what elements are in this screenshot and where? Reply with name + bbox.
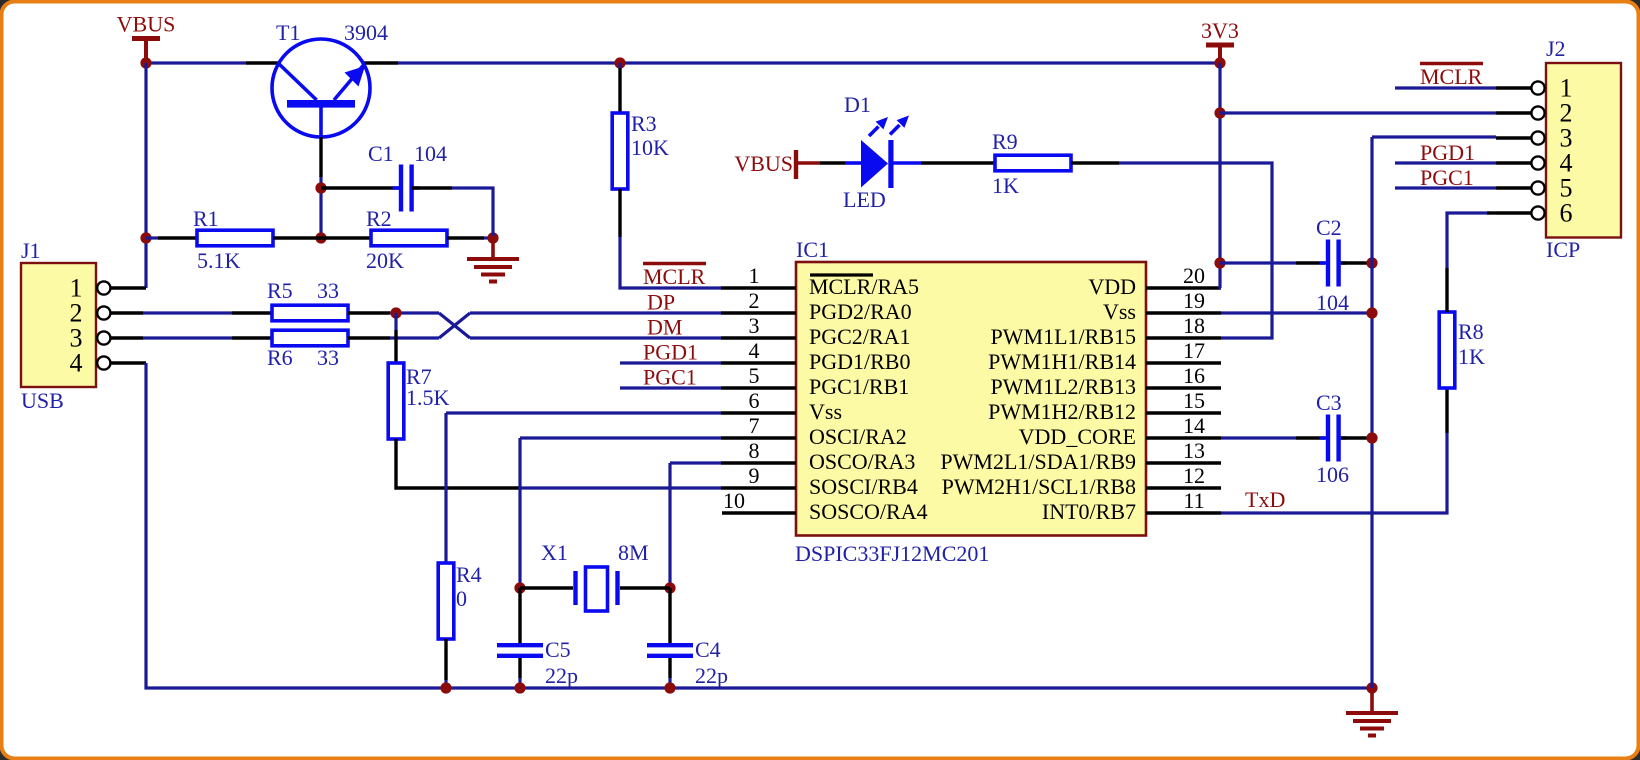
pin stub IC1.9	[721, 486, 796, 489]
svg-text:33: 33	[317, 278, 339, 303]
pin circle J2.3	[1531, 131, 1544, 144]
junction R7 top node	[390, 307, 401, 318]
capacitor C3	[1320, 415, 1347, 462]
svg-text:3: 3	[749, 313, 760, 338]
svg-text:3V3: 3V3	[1201, 18, 1239, 43]
wire IC1 pin8 OSCO net	[670, 461, 721, 464]
pin stub IC1.18	[1146, 336, 1221, 339]
svg-text:3904: 3904	[344, 20, 388, 45]
svg-text:R4: R4	[456, 562, 482, 587]
svg-text:C5: C5	[545, 637, 571, 662]
svg-text:PGC1: PGC1	[643, 365, 697, 390]
svg-text:16: 16	[1183, 363, 1205, 388]
pin R2 right lead	[447, 236, 484, 239]
svg-text:17: 17	[1183, 338, 1205, 363]
overline MCLR pin name	[810, 273, 873, 276]
resistor R1	[197, 230, 273, 246]
svg-text:1K: 1K	[992, 173, 1019, 198]
wire IC1 pin14 to C3	[1221, 436, 1296, 439]
svg-text:DM: DM	[647, 315, 682, 340]
net label MCLR	[643, 264, 706, 290]
svg-text:VDD: VDD	[1088, 274, 1136, 299]
resistor R9	[995, 155, 1071, 171]
pin stub IC1.1	[721, 286, 796, 289]
svg-text:8: 8	[749, 438, 760, 463]
wire R8 to J2 pin6	[1447, 213, 1490, 268]
crystal X1	[576, 567, 618, 611]
pin C3 left lead	[1296, 436, 1325, 439]
wire VBUS rail to T1 collector	[146, 61, 246, 64]
svg-text:12: 12	[1183, 463, 1205, 488]
svg-text:5: 5	[749, 363, 760, 388]
resistor R5	[272, 305, 348, 321]
wire R5 to crossover	[390, 311, 439, 314]
pin stub IC1.4	[721, 361, 796, 364]
pin R7 top lead	[394, 330, 397, 363]
svg-text:PGD1/RB0: PGD1/RB0	[809, 349, 910, 374]
pin D1 anode lead	[820, 161, 845, 164]
svg-text:7: 7	[749, 413, 760, 438]
svg-text:104: 104	[1316, 290, 1349, 315]
svg-text:15: 15	[1183, 388, 1205, 413]
pin circle J2.4	[1531, 156, 1544, 169]
svg-text:J2: J2	[1546, 36, 1566, 61]
IC IC1 box	[796, 262, 1146, 536]
pin C2 right lead	[1341, 261, 1372, 264]
svg-text:OSCO/RA3: OSCO/RA3	[809, 449, 915, 474]
junction C2 branch	[1214, 257, 1225, 268]
wire R6 to crossover	[390, 336, 439, 339]
wire C1 right to ground node	[452, 188, 493, 236]
svg-text:PWM2H1/SCL1/RB8: PWM2H1/SCL1/RB8	[942, 474, 1136, 499]
resistor R6	[272, 330, 348, 346]
wire PGC1 net to J2.5	[1395, 186, 1496, 189]
pin J2.2 lead	[1496, 111, 1531, 114]
ground at R2/C1	[467, 238, 519, 282]
pin stub IC1.14	[1146, 436, 1221, 439]
svg-text:C1: C1	[368, 141, 394, 166]
svg-text:14: 14	[1183, 413, 1205, 438]
wire R2 to ground node	[484, 236, 493, 239]
pin J2.1 lead	[1496, 86, 1531, 89]
svg-text:VBUS: VBUS	[734, 151, 793, 176]
resistor R2	[371, 230, 447, 246]
pin R6 left lead	[232, 336, 272, 339]
wire R3 to IC1 pin1 MCLR	[620, 237, 721, 288]
junction Vss ground	[1366, 307, 1377, 318]
svg-text:33: 33	[317, 345, 339, 370]
pin J1.1 lead	[110, 286, 146, 289]
pin R1 left lead	[158, 236, 197, 239]
junction R1 left node	[140, 232, 151, 243]
pin J1.4 lead	[110, 361, 146, 364]
pin C4 top lead	[668, 588, 671, 643]
wire R4 to ground rail	[444, 680, 447, 688]
pin stub IC1.3	[721, 336, 796, 339]
svg-text:PGC1: PGC1	[1420, 165, 1474, 190]
svg-text:13: 13	[1183, 438, 1205, 463]
wire crossover to IC1 pin3	[470, 336, 721, 339]
pin stub IC1.12	[1146, 486, 1221, 489]
pin circle J2.6	[1531, 206, 1544, 219]
svg-text:18: 18	[1183, 313, 1205, 338]
svg-text:VDD_CORE: VDD_CORE	[1019, 424, 1136, 449]
pin X1 right lead	[620, 586, 670, 589]
pin J2.6 lead	[1496, 211, 1531, 214]
svg-text:T1: T1	[276, 20, 300, 45]
pin R1 right lead	[273, 236, 321, 239]
ground main	[1346, 688, 1398, 736]
svg-text:MCLR: MCLR	[1420, 64, 1483, 89]
pin circle J1.2	[97, 306, 110, 319]
wire J1.3 to R6	[143, 336, 232, 339]
svg-text:SOSCO/RA4: SOSCO/RA4	[809, 499, 928, 524]
pin circle J1.1	[97, 281, 110, 294]
svg-text:R5: R5	[267, 278, 293, 303]
svg-text:PGC2/RA1: PGC2/RA1	[809, 324, 910, 349]
svg-text:11: 11	[1183, 488, 1204, 513]
wire 3V3 rail from T1 emitter	[398, 61, 1220, 64]
wire Vss down to R4	[444, 413, 447, 563]
wire PGD1 net to IC1 pin4	[620, 361, 721, 364]
wire node to R1	[146, 236, 158, 239]
pin stub IC1.5	[721, 386, 796, 389]
wire ground net vertical	[1370, 137, 1373, 688]
pin R2 left lead	[321, 236, 371, 239]
wire PGD1 net to J2.4	[1395, 161, 1496, 164]
svg-text:6: 6	[1560, 199, 1573, 228]
junction C3 ground	[1366, 432, 1377, 443]
wire VBUS vertical	[144, 63, 147, 288]
pin D1 cathode lead to R9	[921, 161, 995, 164]
wire R7 to IC1 pin9	[519, 486, 721, 489]
junction C2 ground	[1366, 257, 1377, 268]
junction 3V3 stem	[1214, 57, 1225, 68]
svg-text:8M: 8M	[618, 540, 649, 565]
pin C5 bottom lead	[518, 658, 521, 678]
wire node to R7	[394, 313, 397, 330]
svg-text:R6: R6	[267, 345, 293, 370]
pin J1.3 lead	[110, 336, 143, 339]
svg-text:104: 104	[414, 141, 447, 166]
pin J2.5 lead	[1496, 186, 1531, 189]
svg-text:D1: D1	[844, 92, 871, 117]
wire OSCI down to X1	[518, 438, 521, 588]
svg-text:PGC1/RB1: PGC1/RB1	[809, 374, 909, 399]
pin C2 left lead	[1296, 261, 1325, 264]
svg-text:MCLR/RA5: MCLR/RA5	[809, 274, 919, 299]
svg-text:Vss: Vss	[1103, 299, 1136, 324]
svg-text:22p: 22p	[695, 663, 728, 688]
pin stub IC1.15	[1146, 411, 1221, 414]
junction R3 top	[614, 57, 625, 68]
wire crossover DM	[439, 313, 470, 338]
svg-text:1.5K: 1.5K	[406, 385, 450, 410]
wire C5 to ground rail	[518, 678, 521, 688]
wire IC1 pin19 Vss to ground net	[1221, 311, 1372, 314]
svg-text:INT0/RB7: INT0/RB7	[1042, 499, 1136, 524]
junction X1 right node	[664, 582, 675, 593]
svg-text:4: 4	[749, 338, 760, 363]
wire PGC1 net to IC1 pin5	[620, 386, 721, 389]
svg-text:ICP: ICP	[1546, 237, 1580, 262]
pin stub IC1.8	[721, 461, 796, 464]
pin circle J2.5	[1531, 181, 1544, 194]
svg-text:R9: R9	[992, 129, 1018, 154]
wire crossover to IC1 pin2	[470, 311, 721, 314]
svg-text:22p: 22p	[545, 663, 578, 688]
wire 3V3 to J2.2	[1220, 111, 1496, 114]
wire 3V3 to C2	[1220, 261, 1296, 264]
terminal VBUS (LED)	[734, 150, 820, 179]
wire T1 base to R1/R2 node	[319, 177, 322, 238]
junction J2 pin2 branch	[1214, 107, 1225, 118]
svg-text:6: 6	[749, 388, 760, 413]
svg-text:IC1: IC1	[796, 237, 829, 262]
power flag 3V3	[1201, 18, 1239, 63]
svg-text:USB: USB	[21, 388, 64, 413]
pin C1 right lead	[412, 186, 452, 189]
wire ground rail	[146, 363, 1372, 688]
pin R8 bottom lead	[1445, 389, 1448, 433]
wire OSCO down to X1	[668, 463, 671, 588]
junction C1 left	[315, 182, 326, 193]
svg-text:PWM1H2/RB12: PWM1H2/RB12	[988, 399, 1136, 424]
resistor R4	[438, 563, 454, 639]
pin circle J2.2	[1531, 106, 1544, 119]
svg-text:C3: C3	[1316, 390, 1342, 415]
pin stub IC1.20	[1146, 286, 1221, 289]
svg-text:10K: 10K	[631, 135, 669, 160]
svg-text:PWM2L1/SDA1/RB9: PWM2L1/SDA1/RB9	[940, 449, 1136, 474]
transistor T1	[272, 39, 370, 137]
pin R9 right lead	[1071, 161, 1119, 164]
wire IC1 pin7 OSCI net	[520, 436, 721, 439]
pin stub IC1.13	[1146, 461, 1221, 464]
svg-text:DP: DP	[647, 290, 675, 315]
junction R4 ground	[440, 682, 451, 693]
capacitor C5	[497, 645, 543, 656]
resistor R3	[612, 113, 628, 189]
pin J1.2 lead	[110, 311, 143, 314]
wire crossover DP	[439, 313, 470, 338]
pin R3 bottom lead	[618, 189, 621, 237]
pin T1 base lead	[319, 137, 322, 177]
connector J1 box	[21, 263, 96, 387]
svg-text:PWM1L1/RB15: PWM1L1/RB15	[991, 324, 1136, 349]
svg-text:5.1K: 5.1K	[197, 248, 241, 273]
pin stub IC1.6	[721, 411, 796, 414]
svg-text:SOSCI/RB4: SOSCI/RB4	[809, 474, 918, 499]
pin stub IC1.2	[721, 311, 796, 314]
svg-text:VBUS: VBUS	[117, 12, 176, 37]
svg-text:X1: X1	[541, 540, 568, 565]
svg-text:2: 2	[749, 288, 760, 313]
pin R3 top lead	[618, 68, 621, 113]
pin C4 bottom lead	[668, 658, 671, 678]
svg-text:PGD1: PGD1	[1420, 140, 1475, 165]
wire J1.2 to R5	[143, 311, 232, 314]
svg-text:J1: J1	[21, 238, 41, 263]
svg-text:4: 4	[70, 349, 83, 378]
svg-text:106: 106	[1316, 462, 1349, 487]
svg-text:R2: R2	[366, 206, 392, 231]
capacitor C1	[393, 165, 420, 212]
svg-text:10: 10	[723, 488, 745, 513]
pin R7 bottom lead to SOSCI net	[396, 439, 519, 488]
svg-text:0: 0	[456, 586, 467, 611]
svg-text:PGD1: PGD1	[643, 340, 698, 365]
resistor R7	[388, 363, 404, 439]
pin C1 left lead	[321, 186, 400, 189]
svg-text:19: 19	[1183, 288, 1205, 313]
resistor R8	[1439, 312, 1455, 388]
connector J2 box	[1546, 63, 1621, 238]
wire MCLR net to J2.1	[1395, 86, 1496, 89]
pin T1 emitter lead	[364, 61, 398, 64]
wire ground to J2.3	[1372, 135, 1496, 138]
pin circle J2.1	[1531, 81, 1544, 94]
svg-text:LED: LED	[843, 187, 886, 212]
pin T1 collector lead	[246, 61, 278, 64]
wire 3V3 rail to IC1 pin20 VDD	[1220, 63, 1221, 288]
svg-text:Vss: Vss	[809, 399, 842, 424]
junction VBUS rail	[140, 57, 151, 68]
junction C5 ground	[514, 682, 525, 693]
svg-text:PGD2/RA0: PGD2/RA0	[809, 299, 912, 324]
wire C4 to ground rail	[668, 678, 671, 688]
pin stub IC1.7	[721, 436, 796, 439]
pin R8 top lead	[1445, 268, 1448, 312]
svg-text:TxD: TxD	[1245, 487, 1285, 512]
junction ground node	[487, 232, 498, 243]
pin J2.4 lead	[1496, 161, 1531, 164]
svg-text:C4: C4	[695, 637, 721, 662]
junction X1 left node	[514, 582, 525, 593]
pin C5 top lead	[518, 588, 521, 643]
capacitor C2	[1320, 240, 1347, 287]
capacitor C4	[647, 645, 693, 656]
pin R6 right lead	[348, 336, 390, 339]
wire rail to R3	[618, 63, 621, 68]
wire IC1 pin6 Vss net	[446, 411, 721, 414]
pin J2.6 lead inner	[1487, 211, 1496, 214]
pin J2.3 lead	[1496, 136, 1531, 139]
pin X1 left lead	[520, 586, 573, 589]
svg-text:C2: C2	[1316, 215, 1342, 240]
pin stub IC1.16	[1146, 386, 1221, 389]
pin circle J1.3	[97, 331, 110, 344]
svg-text:1: 1	[749, 263, 760, 288]
LED D1	[845, 116, 921, 189]
wire IC1 pin11 TxD net	[1221, 433, 1447, 513]
pin circle J1.4	[97, 356, 110, 369]
svg-text:R8: R8	[1458, 319, 1484, 344]
pin C3 right lead	[1341, 436, 1372, 439]
junction C4 ground	[664, 682, 675, 693]
svg-text:R3: R3	[631, 111, 657, 136]
svg-text:1K: 1K	[1458, 344, 1485, 369]
junction main ground	[1366, 682, 1377, 693]
svg-text:PWM1L2/RB13: PWM1L2/RB13	[991, 374, 1136, 399]
pin stub IC1.19	[1146, 311, 1221, 314]
net label MCLR (J2)	[1420, 64, 1483, 90]
pin stub IC1.11	[1146, 511, 1221, 514]
pin stub IC1.17	[1146, 361, 1221, 364]
pin R5 right lead	[348, 311, 390, 314]
svg-text:MCLR: MCLR	[643, 264, 706, 289]
svg-text:20: 20	[1183, 263, 1205, 288]
junction R1-R2 node	[315, 232, 326, 243]
svg-text:DSPIC33FJ12MC201: DSPIC33FJ12MC201	[795, 541, 989, 566]
power flag VBUS	[117, 12, 176, 64]
wire R9 to IC1 pin18 RB15	[1119, 163, 1272, 338]
svg-text:PWM1H1/RB14: PWM1H1/RB14	[988, 349, 1136, 374]
svg-text:20K: 20K	[366, 248, 404, 273]
svg-text:R1: R1	[193, 206, 219, 231]
pin R4 bottom lead	[444, 639, 447, 680]
svg-text:OSCI/RA2: OSCI/RA2	[809, 424, 907, 449]
pin stub IC1.10	[722, 511, 796, 514]
svg-text:9: 9	[749, 463, 760, 488]
pin R5 left lead	[232, 311, 272, 314]
